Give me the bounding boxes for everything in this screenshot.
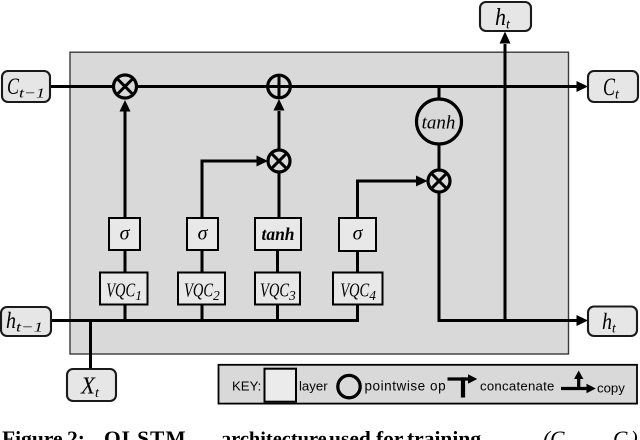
cell body rectangle bbox=[70, 52, 569, 354]
layer box tanh bbox=[255, 218, 301, 250]
svg-text:Figure2:QLSTMarchitectureusedf: Figure2:QLSTMarchitectureusedfortraining… bbox=[2, 427, 638, 440]
wire: X_t vertical bbox=[89, 321, 92, 370]
layer box VQC2 bbox=[178, 273, 225, 305]
node h_{t-1} box bbox=[1, 307, 51, 336]
svg-text:σ: σ bbox=[198, 223, 209, 245]
wire: VQC3 to h line bbox=[276, 304, 279, 322]
layer box sigma2 bbox=[187, 218, 218, 250]
svg-text:σ: σ bbox=[120, 223, 131, 245]
pointwise op otimes2 bbox=[268, 150, 290, 172]
node h_t right box bbox=[588, 307, 637, 337]
arrowhead into right h_t bbox=[577, 315, 589, 326]
arrowhead into C_t bbox=[577, 81, 589, 92]
node C_t box bbox=[588, 71, 638, 102]
wire: h line from h_{t-1} bbox=[51, 319, 359, 322]
pointwise op tanh circle bbox=[417, 99, 462, 144]
wire: otimes2 up to oplus bbox=[278, 111, 281, 150]
pointwise op oplus bbox=[268, 75, 291, 98]
key concatenate symbol bbox=[448, 377, 469, 380]
wire: VQC4 down to h line end bbox=[356, 304, 359, 322]
node C_{t-1} box bbox=[2, 71, 50, 102]
node X_t box bbox=[67, 369, 116, 401]
layer box VQC1 bbox=[100, 273, 148, 305]
KEY legend box bbox=[219, 365, 638, 404]
layer box VQC3 bbox=[255, 273, 300, 305]
layer box sigma4 bbox=[339, 218, 376, 251]
node h_t top box bbox=[480, 2, 531, 31]
wire: column 1 sigma to otimes1 bbox=[124, 111, 127, 218]
svg-text:concatenate: concatenate bbox=[480, 379, 555, 394]
wire: VQC1 to h line bbox=[124, 304, 127, 322]
pointwise op otimes1 bbox=[114, 75, 137, 98]
svg-text:tanh: tanh bbox=[422, 113, 456, 134]
svg-text:layer: layer bbox=[299, 379, 328, 394]
wire: sigma4 to VQC4 bbox=[356, 250, 359, 272]
wire: C line from C_{t-1} to C_t bbox=[50, 85, 577, 88]
wire: tanh box to VQC3 bbox=[276, 250, 279, 272]
arrowhead into top h_t bbox=[500, 32, 511, 44]
arrowhead into otimes3 bbox=[416, 176, 428, 187]
wire: copy line up to top h_t bbox=[504, 44, 507, 321]
arrowhead into otimes2 bbox=[257, 156, 269, 167]
svg-text:σ: σ bbox=[353, 223, 364, 245]
wire: C line down into tanh circle bbox=[438, 87, 441, 99]
wire: otimes3 down then right to h_t bbox=[439, 193, 577, 321]
key layer square bbox=[265, 369, 297, 402]
wire: sigma1 to VQC1 bbox=[124, 250, 127, 272]
wire: VQC2 to h line bbox=[201, 304, 204, 322]
wire: sigma2 to VQC2 bbox=[201, 250, 204, 272]
arrowhead into oplus bbox=[274, 99, 285, 111]
pointwise op otimes3 bbox=[428, 170, 450, 192]
wire: tanh circle to otimes3 bbox=[438, 146, 441, 171]
layer box VQC4 bbox=[333, 273, 383, 305]
key copy symbol bbox=[561, 387, 587, 390]
layer box sigma1 bbox=[109, 218, 140, 250]
svg-text:tanh: tanh bbox=[261, 224, 294, 244]
wire: otimes2 down to tanh box bbox=[278, 173, 281, 219]
svg-text:pointwise op: pointwise op bbox=[365, 379, 447, 394]
key pointwise circle bbox=[338, 375, 360, 397]
wire: column 2 sigma up and right into otimes2 bbox=[202, 161, 258, 218]
svg-text:KEY:: KEY: bbox=[232, 379, 261, 394]
svg-text:copy: copy bbox=[597, 381, 625, 396]
wire: column 4 sigma up and right into otimes3 bbox=[358, 181, 418, 218]
arrowhead into otimes1 bbox=[120, 100, 131, 112]
